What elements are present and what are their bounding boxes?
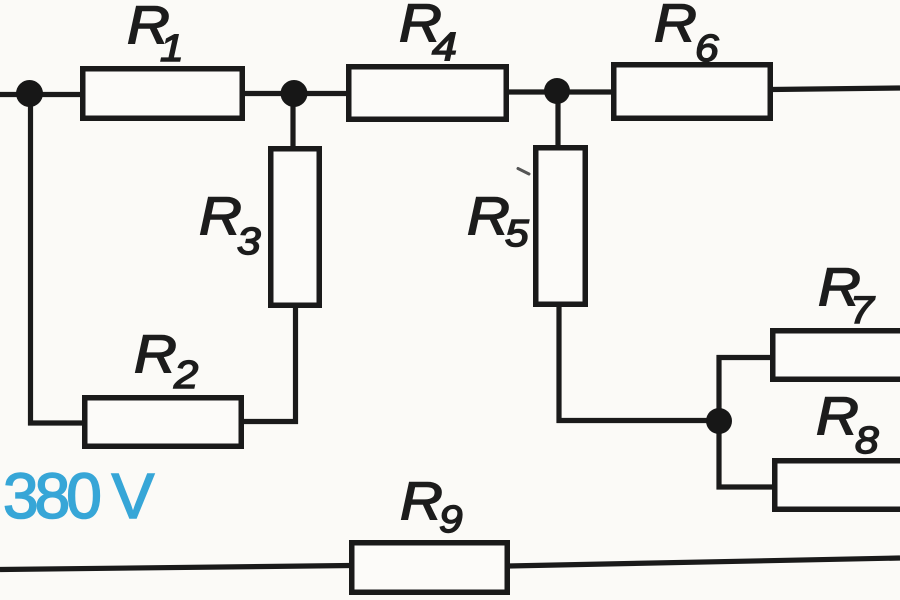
wire top-left stub bbox=[0, 92, 82, 97]
small scan tick near R5 top bbox=[518, 169, 529, 175]
resistor R3 bbox=[271, 149, 320, 306]
wire junction C down bbox=[716, 419, 721, 490]
wire left to R2 bbox=[28, 420, 84, 425]
wire bottom left bbox=[0, 566, 351, 570]
label R2 bbox=[134, 324, 198, 397]
node junction D (R5/R7/R8) bbox=[706, 408, 732, 434]
wire junction A to R3 bbox=[290, 95, 295, 148]
label R9 bbox=[400, 471, 463, 541]
wire bottom right bbox=[508, 558, 900, 566]
svg-text:9: 9 bbox=[439, 497, 463, 540]
svg-text:3: 3 bbox=[237, 219, 261, 262]
svg-text:R: R bbox=[816, 386, 859, 445]
svg-text:1: 1 bbox=[160, 26, 184, 69]
label R4 bbox=[399, 0, 457, 68]
wire left vertical bbox=[28, 95, 33, 426]
resistor R7 bbox=[773, 331, 900, 380]
node junction B (R1/R3/R4) bbox=[281, 80, 308, 107]
resistor R2 bbox=[85, 398, 242, 447]
wire R5 to junction C bbox=[557, 418, 720, 423]
wire R6 to right edge bbox=[771, 88, 900, 90]
svg-text:4: 4 bbox=[432, 24, 457, 68]
label R7 bbox=[818, 257, 875, 332]
label R6 bbox=[654, 0, 719, 69]
resistor R6 bbox=[614, 65, 771, 119]
wire to R7 bbox=[717, 355, 773, 360]
svg-text:R: R bbox=[654, 0, 697, 52]
node junction C (R4/R5/R6) bbox=[544, 78, 570, 104]
svg-text:2: 2 bbox=[173, 353, 198, 396]
resistor R9 bbox=[352, 543, 508, 593]
label R5 bbox=[467, 186, 529, 255]
wire R5 down bbox=[556, 305, 561, 423]
node junction A (left input) bbox=[16, 80, 43, 107]
svg-text:R: R bbox=[134, 324, 177, 383]
wire R2 right bbox=[242, 419, 298, 424]
svg-text:380 V: 380 V bbox=[3, 460, 155, 532]
svg-text:5: 5 bbox=[505, 211, 529, 254]
svg-text:6: 6 bbox=[695, 26, 719, 69]
resistor R5 bbox=[536, 148, 586, 305]
resistor R4 bbox=[349, 67, 507, 120]
wire junction C up bbox=[716, 355, 721, 423]
svg-text:R: R bbox=[467, 186, 510, 245]
svg-text:R: R bbox=[199, 186, 242, 245]
svg-text:8: 8 bbox=[855, 418, 879, 461]
svg-text:7: 7 bbox=[850, 288, 875, 331]
resistor R1 bbox=[83, 69, 243, 119]
wire junction B to R5 bbox=[555, 92, 560, 147]
wire R1 to R4 bbox=[243, 91, 348, 96]
label R3 bbox=[199, 186, 261, 263]
label R1 bbox=[127, 0, 184, 69]
wire to R8 bbox=[717, 484, 775, 489]
wire R3 to R2 node bbox=[293, 306, 298, 424]
wire R4 to R6 bbox=[507, 89, 613, 94]
resistor R8 bbox=[775, 461, 900, 510]
label R8 bbox=[816, 386, 879, 462]
svg-text:R: R bbox=[400, 471, 443, 530]
